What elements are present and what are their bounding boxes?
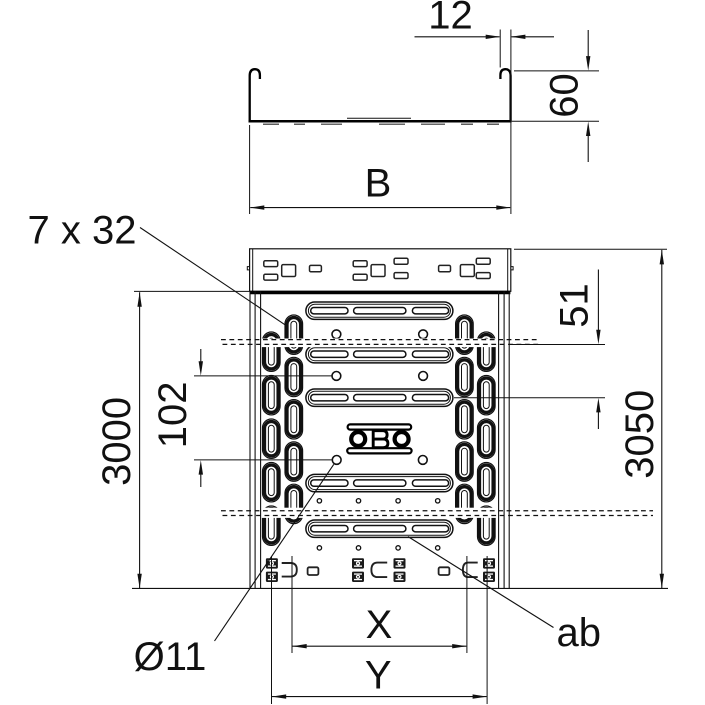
horizontal slot group row 4 (306, 474, 453, 491)
tray bottom edge (section) (249, 120, 512, 123)
label ab with leader (408, 537, 601, 656)
svg-text:Y: Y (365, 653, 392, 697)
right side wall with hook rim (500, 69, 510, 120)
connector band knockout items (264, 258, 490, 280)
white halo stripes for hidden dashed lines (250, 339, 509, 348)
tray body side edges (250, 291, 509, 588)
vertical slot column left outer (263, 332, 281, 545)
small rect knockout right (439, 567, 450, 575)
svg-text:B: B (365, 162, 392, 206)
svg-text:51: 51 (553, 283, 597, 328)
OBO logo (347, 424, 411, 453)
svg-text:60: 60 (542, 73, 586, 118)
label 7 x 32 with leader (28, 208, 286, 325)
horizontal slot group row 5 (306, 520, 453, 537)
large holes rows (D11) (332, 330, 428, 464)
svg-text:12: 12 (428, 0, 473, 38)
svg-text:7 x 32: 7 x 32 (28, 208, 137, 252)
small holes rows (317, 499, 440, 551)
dimension 102 (hole row pitch) (151, 349, 333, 487)
perforation seen edge-on above bottom (347, 117, 411, 119)
plan view: tray body white fill (250, 291, 509, 588)
horizontal slot group row 3 (306, 389, 453, 406)
dimension B (width) (250, 125, 511, 214)
horizontal slot group row 1 (306, 302, 453, 319)
vertical slot column right outer (478, 332, 496, 545)
svg-text:3000: 3000 (95, 397, 139, 486)
dimension X (bottom) (292, 556, 467, 653)
dimension 51 (right) (454, 270, 605, 430)
band bottom thick overlap edge (250, 291, 510, 294)
vertical slot column right inner (456, 315, 474, 524)
svg-text:Ø11: Ø11 (134, 635, 207, 679)
svg-text:ab: ab (557, 611, 602, 655)
clip opening right (center) (371, 563, 387, 578)
band notch right (511, 267, 513, 270)
vertical slot column left inner (285, 315, 303, 524)
extension line inner rim (499, 30, 501, 68)
dashed break line pair lower (221, 510, 653, 512)
dashed break line pair upper (221, 339, 540, 341)
svg-text:3050: 3050 (618, 390, 662, 479)
perforation ticks below bottom (263, 123, 279, 125)
svg-text:X: X (366, 603, 393, 647)
dimension 60 (height) (512, 30, 599, 162)
label D11 with leader (134, 464, 334, 679)
dimension 3000 (left) (95, 291, 249, 588)
clip opening right (463, 563, 478, 578)
horizontal slot group row 2 (306, 346, 453, 363)
clip opening left (282, 563, 297, 577)
svg-text:102: 102 (151, 382, 195, 449)
tray bottom edge + extension line (132, 587, 668, 589)
band notch left (247, 267, 249, 270)
cross-section view of cable tray (249, 69, 512, 124)
extension line outer rim / B right (510, 30, 512, 215)
dimension 12 (rim width) (415, 0, 555, 214)
dimension 3050 (far right) (514, 249, 667, 588)
left side wall with hook rim (250, 69, 260, 120)
fastener square pairs (bottom row) (266, 558, 278, 582)
dimension Y (bottom) (272, 556, 488, 704)
connector band outline (247, 249, 513, 293)
small rect knockout left (308, 567, 319, 575)
